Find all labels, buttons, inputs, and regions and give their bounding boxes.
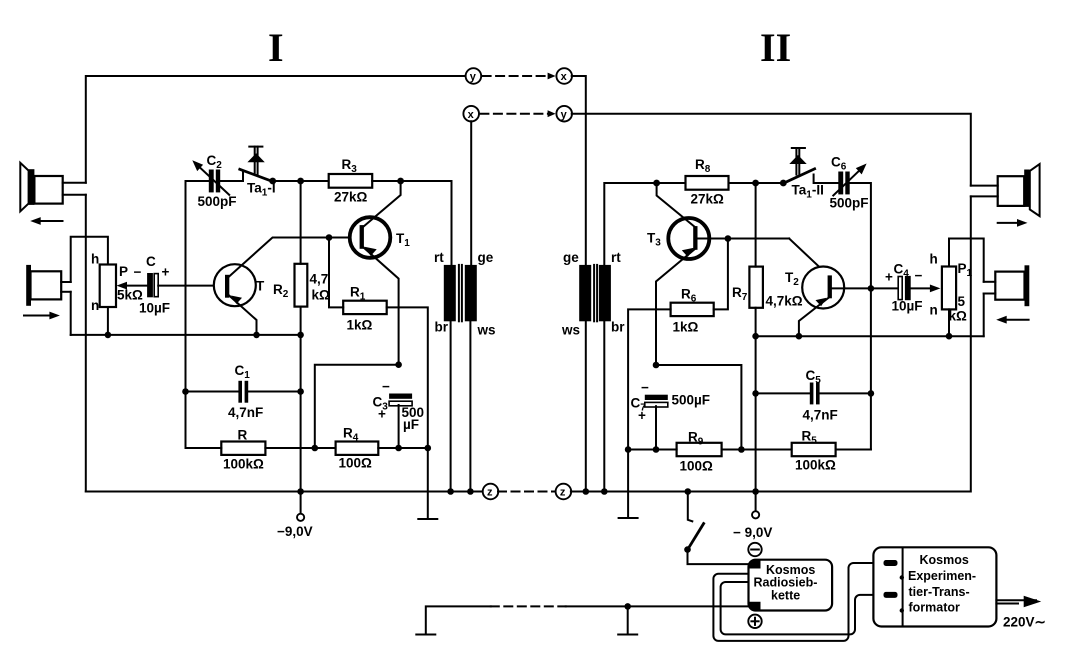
transformer Tr1 (left) — [434, 250, 496, 338]
wire: R6 right up to base row — [714, 239, 728, 310]
svg-text:rt: rt — [434, 250, 444, 265]
svg-text:ws: ws — [477, 323, 496, 338]
junction R6 right / base row — [725, 235, 732, 242]
wire: Tr2 br down to rail — [603, 321, 605, 491]
symbol circled minus — [748, 543, 761, 556]
svg-text:y: y — [470, 71, 477, 83]
emitter rail right — [756, 335, 984, 337]
wire loop A (outer) to transformer box — [713, 563, 884, 641]
wire: mic top loop to P h-terminal — [71, 237, 108, 282]
junction R7 bottom rail — [752, 333, 759, 340]
node z (right) — [556, 484, 572, 500]
potentiometer P1 — [930, 252, 973, 324]
wire: y(right) to right frame top — [572, 114, 971, 186]
svg-text:P: P — [119, 264, 128, 279]
symbol circled plus — [748, 615, 761, 628]
box Kosmos Radiosiebkette — [749, 560, 833, 611]
dashed link z-z — [498, 491, 556, 493]
ground (right amp) — [619, 517, 638, 519]
pushbutton Ta1-I — [240, 147, 276, 199]
junction C5 right — [868, 390, 875, 397]
wire: T collector to T1 base row — [228, 238, 360, 278]
wire: C2 to Ta1-I contact — [220, 173, 243, 182]
svg-text:4,7kΩ: 4,7kΩ — [766, 294, 803, 309]
resistor R2 4.7k — [273, 264, 330, 307]
wire: Tr1 br down to rail — [450, 321, 452, 491]
svg-text:+: + — [638, 408, 646, 423]
node x (left row2) — [463, 106, 479, 122]
dashed link y-x row1 — [483, 73, 556, 80]
svg-text:y: y — [561, 109, 568, 121]
terminal -9,0V (right) — [733, 492, 772, 541]
junction C3 top — [395, 361, 402, 368]
wire: T emitter — [228, 295, 257, 335]
wire: C7 bypass loop — [656, 365, 741, 450]
svg-text:Experimen-: Experimen- — [908, 569, 976, 583]
svg-text:100kΩ: 100kΩ — [795, 458, 836, 473]
node y (right row2) — [556, 106, 572, 122]
wire: R8 row to R7 junction — [657, 182, 686, 184]
wire: C6 to inner-right edge — [850, 183, 871, 450]
pushbutton Ta1-II — [783, 148, 824, 201]
inner-left edge wire x=185.5 — [185, 181, 187, 448]
svg-text:C: C — [146, 254, 156, 269]
wire: T3 base row — [698, 238, 790, 240]
wire: C3 bypass loop — [315, 365, 399, 448]
capacitor C1 4.7nF — [228, 363, 263, 420]
wire: Tr2 ws down to rail — [585, 321, 587, 491]
wire: C7 bottom — [655, 406, 657, 449]
wire loop B (inner) to transformer box — [721, 582, 884, 634]
transistor T — [214, 264, 265, 306]
wire: bottom rail left — [86, 491, 483, 493]
svg-text:µF: µF — [403, 417, 419, 432]
arrow LS-I — [30, 217, 62, 225]
svg-text:Kosmos: Kosmos — [920, 553, 969, 567]
capacitor C4 10uF — [885, 262, 923, 314]
svg-text:4,7nF: 4,7nF — [228, 405, 263, 420]
wire: Tr1 ws down to rail — [469, 321, 471, 491]
wire: left frame below speaker — [85, 195, 87, 492]
junction Ta1-II blade — [780, 180, 787, 187]
svg-text:tier-Trans-: tier-Trans- — [909, 585, 970, 599]
wire: R4 right — [378, 447, 428, 449]
svg-text:500pF: 500pF — [198, 194, 237, 209]
svg-text:rt: rt — [611, 250, 621, 265]
microphone M-I (left) — [26, 265, 70, 306]
wire: -9V line right x=755.6 — [755, 183, 757, 267]
ground (left amp) — [418, 518, 437, 520]
divider pins — [900, 575, 904, 579]
wire: P n-terminal to rail — [107, 307, 109, 335]
junction Ta1-I blade — [269, 178, 276, 185]
speaker LS-I (left top) — [20, 163, 86, 212]
box Kosmos Experimentier-Transformator — [873, 547, 996, 626]
junction C7 top — [653, 362, 660, 369]
wire: Tr2 rt up to R8 row — [604, 183, 656, 265]
transformer Tr2 (right) — [561, 250, 625, 338]
wire: C5 row — [756, 392, 810, 394]
emitter rail left — [71, 334, 301, 336]
svg-text:h: h — [91, 252, 99, 267]
capacitor C 10uF — [134, 254, 171, 316]
junction C3 bottom — [395, 445, 402, 452]
wire: P1 h loop to mic — [949, 239, 984, 282]
capacitor C5 4.7nF — [803, 368, 838, 423]
terminal tab trafo 1 — [884, 560, 898, 566]
junction R1/base row — [326, 234, 333, 241]
wire: T2 collector diagonal — [789, 239, 829, 277]
junction T emitter / rail — [253, 332, 260, 339]
node x (right top) — [556, 68, 572, 84]
svg-text:220V∼: 220V∼ — [1003, 615, 1046, 630]
resistor R1 1k — [343, 285, 387, 333]
potentiometer P — [91, 252, 143, 314]
svg-text:n: n — [930, 303, 938, 318]
junction T3 collector — [653, 180, 660, 187]
wire: R6 left to ground drop — [628, 309, 671, 518]
ground wire with dashes (bottom left) — [426, 606, 749, 633]
svg-text:h: h — [930, 252, 938, 267]
transistor T3 — [647, 218, 709, 259]
wire: R1 right to ground drop — [387, 307, 428, 519]
svg-text:br: br — [435, 320, 449, 335]
junction ground mid — [624, 603, 631, 610]
wire: R1 left to base row — [329, 238, 343, 308]
svg-text:10µF: 10µF — [892, 299, 923, 314]
svg-text:n: n — [91, 298, 99, 313]
svg-text:100Ω: 100Ω — [680, 459, 714, 474]
junction R/R4 — [312, 445, 319, 452]
svg-text:−: − — [641, 380, 649, 395]
wire: P wiper to C — [123, 285, 147, 287]
wire: bottom rail right — [571, 196, 971, 491]
wire: x(right) to right transformer ge — [572, 76, 586, 265]
svg-text:I: I — [268, 25, 284, 70]
junction C5 left — [752, 390, 759, 397]
transistor T1 — [350, 217, 411, 258]
wire: R5 right — [836, 449, 871, 451]
capacitor C6 500pF variable — [830, 155, 869, 211]
wire: left top frame — [86, 76, 466, 183]
svg-text:+: + — [162, 265, 170, 280]
svg-text:T: T — [256, 279, 265, 294]
capacitor C3 500uF — [373, 379, 425, 432]
wire: C3 bottom — [398, 405, 400, 448]
svg-text:+: + — [885, 270, 893, 285]
arrow M-I — [24, 312, 60, 320]
junction C4 / inner-right — [868, 285, 875, 292]
svg-text:1kΩ: 1kΩ — [673, 320, 699, 335]
resistor R7 4.7k — [732, 267, 803, 309]
transistor T2 — [785, 267, 844, 309]
junction P1 n — [946, 333, 953, 340]
wire: R8 to Ta1-II — [729, 182, 784, 184]
svg-text:500pF: 500pF — [830, 196, 869, 211]
junction P-n — [105, 332, 112, 339]
svg-text:x: x — [561, 71, 568, 83]
terminal tab plus — [749, 602, 761, 611]
resistor R5 100k — [792, 429, 836, 473]
arrow LS-II — [998, 219, 1028, 227]
svg-text:formator: formator — [909, 601, 961, 615]
wire: T2 emitter — [799, 297, 830, 336]
wire: Ta1-II contact to C6 — [814, 175, 839, 184]
microphone M-II (right) — [984, 265, 1030, 306]
svg-text:−: − — [915, 268, 923, 283]
svg-text:− 9,0V: − 9,0V — [733, 525, 772, 540]
svg-text:100kΩ: 100kΩ — [223, 457, 264, 472]
svg-text:4,7nF: 4,7nF — [803, 408, 838, 423]
svg-text:z: z — [560, 487, 566, 499]
wire: x(left) down to left transformer ge — [470, 121, 472, 265]
switch S to Radiosiebkette — [684, 488, 748, 564]
svg-text:ws: ws — [561, 323, 580, 338]
ground (wire left end) — [416, 634, 435, 636]
wire: T1 emitter down — [363, 247, 399, 365]
svg-text:kΩ: kΩ — [312, 288, 331, 303]
resistor R8 27k — [686, 157, 729, 207]
svg-text:kΩ: kΩ — [949, 309, 968, 324]
junction C7 bottom — [653, 446, 660, 453]
svg-text:ge: ge — [563, 250, 579, 265]
wire: R3 to collector junction and transformer — [372, 181, 451, 265]
svg-text:100Ω: 100Ω — [339, 456, 373, 471]
capacitor C2 500pF variable — [192, 153, 236, 209]
resistor R9 100ohm — [677, 430, 722, 474]
svg-text:10µF: 10µF — [139, 301, 170, 316]
wire: C4 to P1 wiper — [911, 285, 941, 293]
wire: T1 collector up to junction — [363, 181, 401, 227]
junction R2 top — [297, 178, 304, 185]
svg-text:5: 5 — [958, 294, 966, 309]
svg-text:+: + — [378, 407, 386, 422]
terminal tab minus — [749, 560, 761, 569]
node y (left) — [466, 68, 482, 84]
junction R2 bottom / rail — [297, 332, 304, 339]
wire: R row — [186, 447, 222, 449]
ground (mid) — [618, 606, 637, 634]
resistor R6 1k — [671, 287, 714, 335]
svg-text:II: II — [760, 25, 791, 70]
terminal -9,0V (left) — [277, 492, 313, 540]
wire: P1 n to rail — [948, 309, 950, 336]
resistor R4 100ohm — [336, 426, 379, 471]
wire: T3 emitter down — [656, 248, 696, 365]
svg-text:1kΩ: 1kΩ — [347, 318, 373, 333]
terminal tab trafo 2 — [884, 592, 898, 598]
cable 220V out — [996, 596, 1045, 630]
junction -9V rail right — [752, 488, 759, 495]
arrow M-II — [996, 316, 1028, 324]
junction C1 left — [182, 388, 189, 395]
speaker LS-II (right top) — [971, 164, 1040, 216]
junction T1 collector — [397, 178, 404, 185]
wire: mic bottom loop to rail — [983, 294, 985, 337]
junction -9V rail — [297, 488, 304, 495]
svg-text:500µF: 500µF — [672, 393, 711, 408]
wire: T3 collector up — [657, 183, 696, 228]
wire: Ta1-I to R3 — [273, 180, 329, 182]
capacitor C7 500uF — [631, 380, 711, 423]
svg-text:z: z — [487, 487, 493, 499]
wire: T2 base to C4 — [832, 287, 898, 289]
svg-text:−9,0V: −9,0V — [277, 524, 313, 539]
junction R9/R5 — [738, 446, 745, 453]
wire: C2 branch from inner edge — [186, 180, 209, 182]
svg-text:kette: kette — [771, 589, 800, 603]
dashed link x-y row2 — [480, 110, 555, 117]
junction R7 top — [752, 180, 759, 187]
wire: C to T base — [158, 285, 225, 287]
wire: mic bottom to emitter rail — [70, 292, 72, 335]
svg-text:4,7: 4,7 — [310, 272, 329, 287]
svg-text:−: − — [134, 265, 142, 280]
wire: R9 row — [628, 449, 677, 451]
resistor R 100k — [221, 428, 265, 472]
svg-text:ge: ge — [478, 250, 494, 265]
svg-text:27kΩ: 27kΩ — [334, 190, 368, 205]
junction C1 right — [297, 388, 304, 395]
junction R9 left — [625, 446, 632, 453]
wire: -9V line x=300.6 — [300, 181, 302, 264]
svg-text:−: − — [382, 379, 390, 394]
junction T2 emitter / rail — [796, 333, 803, 340]
svg-text:x: x — [468, 109, 475, 121]
wire: C1 row — [186, 391, 239, 393]
junction R4 right — [425, 445, 432, 452]
svg-text:R: R — [238, 428, 248, 443]
svg-text:Radiosieb-: Radiosieb- — [754, 576, 818, 590]
node z (left) — [483, 484, 499, 500]
resistor R3 27k — [329, 157, 373, 205]
svg-text:br: br — [611, 320, 625, 335]
svg-text:27kΩ: 27kΩ — [691, 192, 725, 207]
